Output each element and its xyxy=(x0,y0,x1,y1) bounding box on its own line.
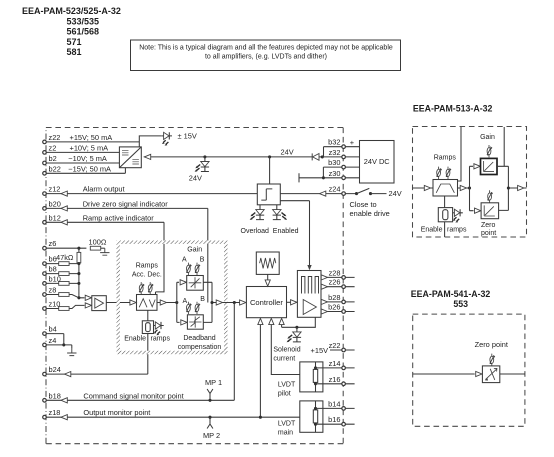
wire rail to comparator xyxy=(269,157,271,184)
513 wire enable down xyxy=(444,222,446,237)
wire controller to z18 line xyxy=(259,324,261,417)
enable ramps block xyxy=(142,321,153,334)
svg-text:Gain: Gain xyxy=(187,247,202,254)
513 node split xyxy=(468,186,471,189)
svg-text:+15V; 50 mA: +15V; 50 mA xyxy=(70,133,113,142)
svg-text:100Ω: 100Ω xyxy=(89,237,107,246)
comparator U2 overload/enable xyxy=(257,184,280,205)
dither oscillator block xyxy=(256,252,279,274)
svg-text:z14: z14 xyxy=(329,359,341,368)
svg-text:b24: b24 xyxy=(49,365,61,374)
svg-text:z22: z22 xyxy=(49,133,61,142)
svg-text:Enable: Enable xyxy=(124,336,146,343)
svg-text:ramps: ramps xyxy=(151,336,171,343)
wire b2 -10V xyxy=(46,162,119,164)
wire b10 xyxy=(46,282,79,284)
wire b14 xyxy=(316,407,355,409)
svg-text:current: current xyxy=(273,356,295,363)
controller block U4 xyxy=(246,287,286,318)
svg-text:A: A xyxy=(182,257,187,264)
wire b22 -15V xyxy=(46,168,125,174)
arrow into ramp block xyxy=(130,300,136,305)
svg-text:EEA-PAM-513-A-32: EEA-PAM-513-A-32 xyxy=(413,104,493,114)
svg-text:−10V; 5 mA: −10V; 5 mA xyxy=(68,154,107,163)
terminal z24 xyxy=(342,192,346,196)
wire z26 xyxy=(321,286,355,288)
optional features hatched enclosure xyxy=(117,241,228,355)
terminal b20 xyxy=(43,207,47,211)
svg-text:Close to: Close to xyxy=(350,200,377,209)
svg-text:47kΩ: 47kΩ xyxy=(56,253,74,262)
terminal b2 xyxy=(43,161,47,165)
svg-text:MP 2: MP 2 xyxy=(203,431,220,440)
wire split verticals xyxy=(177,282,180,322)
svg-text:b28: b28 xyxy=(328,293,340,302)
svg-text:z18: z18 xyxy=(49,408,61,417)
wire z16 xyxy=(316,383,355,385)
potentiometer deadband B xyxy=(195,302,200,314)
potentiometer gain A xyxy=(186,263,191,275)
wire b8 xyxy=(46,273,79,275)
terminal z30 xyxy=(342,176,346,180)
svg-text:+15V: +15V xyxy=(311,346,329,355)
svg-text:EEA-PAM-523/525-A-32: EEA-PAM-523/525-A-32 xyxy=(22,6,121,16)
wire amp to ramp block xyxy=(106,302,129,304)
resistor R1 100 Ohm xyxy=(90,246,100,250)
wire controller to LVDT pilot xyxy=(271,324,300,375)
node b4-z4 junction xyxy=(62,343,65,346)
svg-text:b30: b30 xyxy=(328,158,340,167)
513 wire ramp to enable xyxy=(444,196,446,208)
wire b20 drive zero xyxy=(46,208,208,302)
svg-text:Acc. Dec.: Acc. Dec. xyxy=(132,272,162,279)
node solenoid junction xyxy=(295,326,298,329)
ramp generator block xyxy=(137,295,158,311)
wire z24 enable xyxy=(280,193,356,195)
svg-text:B: B xyxy=(200,257,205,264)
svg-text:Zero: Zero xyxy=(481,222,496,229)
svg-text:point: point xyxy=(481,230,496,237)
svg-text:b14: b14 xyxy=(328,399,340,408)
svg-text:z26: z26 xyxy=(329,278,341,287)
LVDT pilot T1 xyxy=(300,362,323,392)
svg-text:Zero point: Zero point xyxy=(475,340,508,349)
svg-text:Enable: Enable xyxy=(421,227,443,234)
513 zero point block xyxy=(481,203,499,219)
wire z22 +15V xyxy=(46,136,162,147)
svg-text:Output monitor point: Output monitor point xyxy=(83,408,150,417)
wire dither to controller xyxy=(267,274,269,280)
svg-text:Controller: Controller xyxy=(250,298,283,307)
wire b16 xyxy=(316,423,355,425)
513 split verticals xyxy=(470,166,474,210)
svg-text:+: + xyxy=(350,138,354,147)
svg-text:z24: z24 xyxy=(329,185,341,194)
svg-text:b22: b22 xyxy=(49,164,61,173)
svg-text:24V: 24V xyxy=(281,147,294,156)
svg-text:EEA-PAM-541-A-32: EEA-PAM-541-A-32 xyxy=(411,289,491,299)
wire solenoid current sense xyxy=(282,317,316,327)
svg-text:b26: b26 xyxy=(328,303,340,312)
node z18-controller junction xyxy=(259,416,262,419)
svg-text:z8: z8 xyxy=(49,286,57,295)
svg-text:b2: b2 xyxy=(49,154,57,163)
541 zero point block xyxy=(482,366,499,383)
wire ramp block to enable block xyxy=(147,310,149,321)
svg-text:553: 553 xyxy=(453,299,468,309)
svg-text:24V DC: 24V DC xyxy=(364,157,391,166)
svg-text:z2: z2 xyxy=(49,143,57,152)
node b30-z30 junction xyxy=(322,176,325,179)
svg-text:581: 581 xyxy=(67,47,82,57)
terminal z2 xyxy=(43,151,47,155)
svg-text:Overload: Overload xyxy=(241,228,270,235)
svg-text:b6: b6 xyxy=(49,255,57,264)
wire z30 with stub bar xyxy=(299,173,360,182)
513 wire ramp out xyxy=(458,187,470,189)
513 LED enable xyxy=(453,209,463,222)
svg-text:561/568: 561/568 xyxy=(67,27,100,37)
wire gain/deadband outputs xyxy=(203,282,229,322)
513 enable ramps block xyxy=(438,208,452,222)
wire z12 alarm output xyxy=(46,193,257,195)
LED D1 +-15V indicator xyxy=(162,132,172,145)
wire b30 xyxy=(323,167,359,178)
node rail-comparator junction xyxy=(268,155,271,158)
node MP2 xyxy=(208,416,211,419)
wire z14 xyxy=(316,367,355,369)
wire z28 xyxy=(321,276,355,278)
svg-text:± 15V: ± 15V xyxy=(178,132,197,141)
switch S1 close to enable xyxy=(350,188,402,218)
svg-text:Note: This is a typical diagra: Note: This is a typical diagram and all … xyxy=(139,45,393,52)
potentiometer dec xyxy=(148,282,153,294)
svg-text:z12: z12 xyxy=(49,185,61,194)
svg-text:z10: z10 xyxy=(49,300,61,309)
513 potentiometer acc xyxy=(437,167,442,179)
LED D2 24V indicator xyxy=(195,157,210,172)
513 gain block bold xyxy=(481,158,498,174)
terminal b32 xyxy=(342,145,346,149)
main amplifier dashed enclosure xyxy=(46,128,343,444)
svg-text:Ramps: Ramps xyxy=(434,155,457,162)
ground xyxy=(100,248,109,255)
note box xyxy=(131,40,401,71)
svg-text:A: A xyxy=(183,298,188,305)
wire ramp out xyxy=(157,302,177,304)
gain block xyxy=(187,276,204,291)
LED D5 enabled xyxy=(273,205,288,220)
terminal z12 xyxy=(43,192,47,196)
arrow into DC/DC xyxy=(144,154,150,159)
541 signal wire xyxy=(413,373,525,375)
svg-text:Command signal monitor point: Command signal monitor point xyxy=(83,391,183,400)
svg-text:b32: b32 xyxy=(328,138,340,147)
potentiometer deadband A xyxy=(186,302,191,314)
513 potentiometer zero xyxy=(488,190,493,202)
svg-text:main: main xyxy=(278,430,293,437)
svg-text:Alarm output: Alarm output xyxy=(83,185,125,194)
24V DC supply box xyxy=(360,141,395,184)
wire to controller xyxy=(230,302,247,304)
svg-text:Enabled: Enabled xyxy=(273,228,299,235)
svg-text:z16: z16 xyxy=(329,375,341,384)
svg-text:LVDT: LVDT xyxy=(278,382,296,389)
svg-text:Drive zero signal indicator: Drive zero signal indicator xyxy=(83,199,169,208)
svg-text:LVDT: LVDT xyxy=(278,421,296,428)
svg-text:Ramp active indicator: Ramp active indicator xyxy=(83,213,155,222)
513 potentiometer dec xyxy=(446,167,451,179)
wire z10 xyxy=(46,305,85,308)
svg-text:+10V; 5 mA: +10V; 5 mA xyxy=(70,143,109,152)
svg-text:b12: b12 xyxy=(49,213,61,222)
wire +15V z22 xyxy=(330,349,355,351)
wire z8 xyxy=(46,295,79,298)
node split xyxy=(175,301,178,304)
ground xyxy=(67,349,76,356)
terminal z32 xyxy=(342,155,346,159)
diode D3 reverse polarity xyxy=(312,153,322,160)
svg-text:b20: b20 xyxy=(49,199,61,208)
EEA-PAM-541 dashed enclosure xyxy=(413,314,525,426)
wire b18 command monitor xyxy=(46,303,234,401)
svg-text:−15V; 50 mA: −15V; 50 mA xyxy=(68,164,111,173)
title model list xyxy=(22,6,121,57)
output stage U5 xyxy=(297,271,321,318)
541 potentiometer xyxy=(490,354,495,366)
svg-text:MP 1: MP 1 xyxy=(205,378,222,387)
svg-text:z30: z30 xyxy=(329,169,341,178)
potentiometer gain B xyxy=(195,263,200,275)
svg-text:24V: 24V xyxy=(189,173,202,182)
svg-text:B: B xyxy=(200,296,205,303)
wire b12 ramp active xyxy=(46,222,164,294)
wire z6 xyxy=(46,247,86,249)
op-amp U3 summing amplifier xyxy=(92,296,107,311)
svg-text:to all amplifiers, (e.g. LVDTs: to all amplifiers, (e.g. LVDTs and dithe… xyxy=(205,54,327,61)
node rail-LED junction xyxy=(203,155,206,158)
LVDT main T2 xyxy=(300,401,323,432)
svg-text:z6: z6 xyxy=(49,239,57,248)
513 wire ramp active top xyxy=(458,127,462,181)
DC/DC converter U1 xyxy=(119,147,141,168)
terminal b12 xyxy=(43,221,47,225)
svg-text:b4: b4 xyxy=(49,325,57,334)
test point MP2 xyxy=(207,417,213,428)
terminal z6 xyxy=(43,246,47,250)
terminal b30 xyxy=(342,165,346,169)
513 ramp generator block xyxy=(433,180,458,197)
EEA-PAM-513 dashed enclosure xyxy=(413,127,527,238)
513 gain/zero outputs xyxy=(497,127,527,210)
resistor R2 47k xyxy=(77,252,81,262)
svg-text:b10: b10 xyxy=(49,274,61,283)
node command monitor junction xyxy=(233,301,236,304)
svg-text:compensation: compensation xyxy=(178,344,222,351)
wire controller to output stage xyxy=(287,301,298,303)
svg-text:b18: b18 xyxy=(49,391,61,400)
node z6 junction xyxy=(77,247,80,250)
node MP1 xyxy=(208,399,211,402)
svg-text:z32: z32 xyxy=(329,148,341,157)
svg-text:b16: b16 xyxy=(328,415,340,424)
summing bus wire xyxy=(79,248,85,298)
wire b32 xyxy=(324,147,360,157)
wire z4 xyxy=(46,345,72,349)
wire b6 xyxy=(46,263,79,265)
wire z32 xyxy=(322,156,359,158)
deadband compensation block xyxy=(187,315,203,329)
svg-text:Gain: Gain xyxy=(480,134,495,141)
svg-text:z4: z4 xyxy=(49,336,57,345)
terminal z22 xyxy=(43,140,47,144)
svg-text:24V: 24V xyxy=(389,189,402,198)
svg-text:z28: z28 xyxy=(329,268,341,277)
svg-text:z22: z22 xyxy=(329,341,341,350)
svg-text:ramps: ramps xyxy=(447,227,467,234)
terminal b22 xyxy=(43,172,47,176)
svg-text:533/535: 533/535 xyxy=(67,16,100,26)
svg-text:enable drive: enable drive xyxy=(350,209,390,218)
wire b24 enable ramps input xyxy=(46,334,148,375)
node diode-z32 junction xyxy=(321,155,324,158)
513 potentiometer gain xyxy=(487,145,492,157)
svg-text:pilot: pilot xyxy=(278,391,291,398)
513 input wire xyxy=(413,187,434,189)
wire comparator to output stage xyxy=(280,201,309,266)
LED D4 overload xyxy=(250,205,265,220)
test point MP1 xyxy=(207,389,213,400)
svg-text:Deadband: Deadband xyxy=(183,335,215,342)
wire z18 output monitor xyxy=(46,416,300,418)
svg-text:571: 571 xyxy=(67,37,82,47)
wire z2 +10V xyxy=(46,151,119,153)
svg-text:Solenoid: Solenoid xyxy=(273,347,300,354)
LED D6 ramp active xyxy=(154,322,164,335)
wire b4 xyxy=(46,334,64,345)
wire b26 xyxy=(321,311,355,313)
svg-text:b8: b8 xyxy=(49,265,57,274)
24V supply rail wire xyxy=(144,156,312,158)
node summing xyxy=(77,296,80,299)
LED D7 solenoid current xyxy=(287,327,302,342)
potentiometer acc xyxy=(139,282,144,294)
wire b28 xyxy=(321,301,355,303)
svg-text:Ramps: Ramps xyxy=(136,263,159,270)
